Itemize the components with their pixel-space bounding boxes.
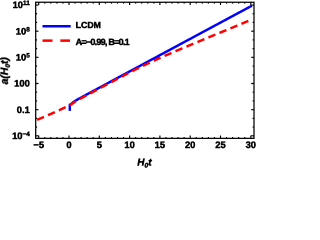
svg-text:0.1: 0.1	[17, 104, 30, 115]
svg-text:108: 108	[16, 25, 30, 36]
svg-text:LCDM: LCDM	[76, 20, 101, 30]
svg-text:1011: 1011	[13, 0, 31, 10]
legend red dashes	[43, 39, 71, 42]
svg-text:A=−0.99, B=0.1: A=−0.99, B=0.1	[76, 37, 130, 47]
plot frame	[36, 2, 254, 138]
legend blue line	[43, 25, 71, 28]
svg-text:10−4: 10−4	[12, 130, 30, 141]
svg-text:15: 15	[155, 139, 165, 150]
svg-text:25: 25	[215, 139, 225, 150]
axis ticks	[36, 2, 254, 138]
svg-text:5: 5	[97, 139, 102, 150]
svg-text:H0t: H0t	[137, 157, 152, 169]
svg-text:10: 10	[124, 139, 134, 150]
svg-text:100: 100	[14, 78, 30, 89]
svg-text:20: 20	[185, 139, 195, 150]
red dashed curve A=-0.99 B=0.1	[36, 20, 252, 121]
svg-text:30: 30	[246, 139, 256, 150]
svg-text:−5: −5	[33, 139, 44, 150]
chart: log-plot a(H0t) vs H0t	[0, 0, 256, 169]
svg-text:105: 105	[16, 52, 30, 63]
svg-text:0: 0	[66, 139, 71, 150]
blue curve LCDM	[70, 6, 252, 111]
svg-text:a(H0t): a(H0t)	[0, 57, 12, 85]
